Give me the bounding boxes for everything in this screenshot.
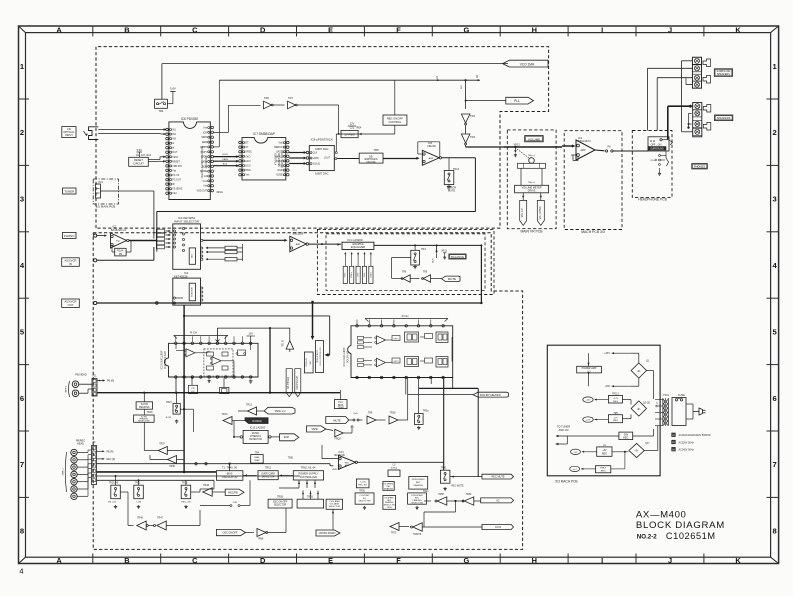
- svg-text:AUX/VCR: AUX/VCR: [65, 300, 77, 304]
- svg-text:E2: E2: [672, 442, 674, 444]
- svg-text:LRCI: LRCI: [245, 161, 251, 163]
- IC3 internal selector bar: [189, 248, 195, 264]
- svg-text:ON/OFF: ON/OFF: [366, 161, 376, 164]
- svg-text:AND CD: AND CD: [559, 428, 569, 432]
- svg-text:TR22: TR22: [135, 483, 141, 485]
- svg-text:REG: REG: [602, 454, 607, 456]
- wire IC12 pins down verticals: [405, 379, 407, 395]
- main speaker terminal block: [693, 103, 702, 137]
- svg-text:TAPE 1: TAPE 1: [65, 385, 68, 393]
- svg-text:REG: REG: [623, 437, 628, 439]
- svg-text:TR9: TR9: [368, 412, 373, 415]
- OSC ON/OFF flag: [216, 529, 245, 535]
- svg-text:BIAS: BIAS: [254, 456, 260, 459]
- svg-text:+5V: +5V: [602, 450, 607, 452]
- svg-text:OFF↔ON: OFF↔ON: [651, 143, 662, 146]
- svg-text:F: F: [396, 556, 401, 565]
- K1 PB EQ vertical flag: [286, 369, 292, 397]
- wire EMPH rail: [219, 79, 480, 81]
- svg-text:PLAYBACK AMP: PLAYBACK AMP: [164, 351, 167, 370]
- svg-text:TR51: TR51: [265, 467, 272, 470]
- R CH bracket over IC12: [365, 318, 448, 320]
- svg-text:RESET: RESET: [134, 158, 143, 162]
- HI FREQ dark flag: [245, 418, 268, 424]
- svg-text:B: B: [124, 25, 129, 34]
- svg-text:MUTE: MUTE: [448, 277, 456, 281]
- svg-text:-12V: -12V: [586, 420, 591, 422]
- wire TR3 down to volume rail: [465, 145, 467, 147]
- PLL flag: [506, 97, 534, 104]
- svg-text:TRAP: TRAP: [254, 459, 260, 462]
- svg-text:16BIT DAC: 16BIT DAC: [315, 172, 329, 176]
- svg-text:F: F: [396, 25, 401, 34]
- IC12 CXA1118BP dolby rec amp box: [351, 326, 453, 378]
- wire TR58 down loop: [424, 500, 431, 502]
- svg-text:QH1: QH1: [353, 413, 358, 415]
- wire bias osc to over curr: [243, 475, 257, 477]
- svg-text:PB (R): PB (R): [107, 451, 114, 453]
- svg-text:VS SENS: VS SENS: [172, 189, 182, 191]
- IC6 left pins: [166, 128, 169, 131]
- IC2 KET4052B tape monitor selector box: [173, 278, 201, 305]
- svg-text:P21: P21: [99, 181, 104, 184]
- svg-text:TR6: TR6: [402, 271, 407, 274]
- tape2 head connector circles: [71, 449, 77, 455]
- svg-text:NOR-SPEED: NOR-SPEED: [412, 479, 425, 481]
- wire speaker bottom return: [682, 131, 693, 133]
- svg-text:-Φ-: -Φ-: [637, 407, 641, 411]
- svg-text:PLL: PLL: [514, 99, 520, 103]
- SURROUND SPEAKERS label: [714, 69, 732, 77]
- svg-text:IC1 LA9200: IC1 LA9200: [347, 238, 363, 242]
- svg-text:TR33: TR33: [182, 483, 188, 485]
- STK output wire with P8 connectors: [595, 149, 605, 152]
- reset circuit box: [129, 157, 149, 166]
- svg-text:RI FREQ: RI FREQ: [252, 421, 262, 423]
- svg-text:Q3-Q5: Q3-Q5: [657, 402, 659, 408]
- svg-text:4: 4: [19, 567, 23, 576]
- IC8 left pins: [306, 151, 309, 154]
- svg-text:TR18: TR18: [147, 411, 154, 414]
- svg-text:COPY: COPY: [200, 152, 207, 154]
- svg-text:TR4: TR4: [421, 248, 426, 251]
- svg-text:AC110/120/220/240V 50/60Hz: AC110/120/220/240V 50/60Hz: [679, 434, 712, 437]
- IC10 internal wires: [195, 352, 208, 354]
- svg-text:CAL: CAL: [203, 180, 208, 183]
- svg-text:LRCO: LRCO: [276, 152, 283, 154]
- svg-text:4kHz: 4kHz: [364, 273, 366, 278]
- NOR-SPEED REC PEAKING box: [409, 477, 428, 490]
- svg-text:REC: REC: [416, 482, 421, 484]
- svg-text:-Φ-: -Φ-: [637, 369, 641, 373]
- svg-text:I: I: [601, 556, 603, 565]
- svg-text:BLOCK DIAGRAM: BLOCK DIAGRAM: [636, 520, 725, 531]
- svg-text:TUNER: TUNER: [64, 190, 74, 194]
- svg-text:LRCK: LRCK: [201, 157, 208, 159]
- CrO2 flag: [482, 524, 514, 529]
- svg-text:E: E: [328, 25, 333, 34]
- dashed outline lower main PCB: [93, 233, 522, 550]
- IC12 top pin row: [356, 325, 359, 328]
- svg-text:TR112: TR112: [612, 394, 619, 396]
- SURROUND black band: [648, 147, 666, 151]
- svg-text:K1 PB EQ: K1 PB EQ: [286, 377, 290, 389]
- long wire back to input selector: [157, 211, 476, 213]
- svg-text:BCK: BCK: [202, 166, 207, 168]
- svg-text:C+D4 BIAS: C+D4 BIAS: [329, 500, 340, 503]
- svg-text:2: 2: [20, 128, 24, 137]
- svg-text:TR12: TR12: [246, 404, 253, 407]
- svg-text:VCO 1MH: VCO 1MH: [520, 62, 535, 66]
- svg-text:REC -ON: REC -ON: [181, 502, 191, 504]
- svg-text:SELECTOR: SELECTOR: [274, 505, 287, 507]
- VOL DOWN flag vertical: [537, 200, 544, 225]
- wire rec line from IC13 right: [384, 461, 444, 463]
- wire IC4 out to GEQ: [308, 243, 341, 245]
- wire IC2 tap to aux line: [176, 297, 183, 299]
- svg-text:TR13: TR13: [453, 168, 460, 171]
- svg-text:3: 3: [20, 195, 24, 204]
- svg-text:+5V: +5V: [574, 452, 578, 454]
- svg-text:PC VS: PC VS: [172, 175, 179, 177]
- svg-text:IC1: IC1: [113, 225, 118, 229]
- wire tuner P21 to selector: [101, 190, 154, 192]
- IC12 internal upper filter blocks: [392, 336, 400, 341]
- wire from IC10 top to ALC rail: [217, 327, 290, 329]
- svg-text:TR46: TR46: [137, 517, 144, 520]
- wire into IC13 from left: [321, 445, 323, 459]
- IC3 resistor inputs from right: [225, 246, 237, 249]
- svg-text:DOLBY NR: DOLBY NR: [347, 351, 350, 363]
- bus IC7 to IC8 thick wires: [289, 152, 305, 154]
- dolby switch TR2a: [415, 414, 424, 425]
- svg-text:REC MUTE: REC MUTE: [491, 476, 504, 479]
- IC10 internal opamp B: [212, 357, 221, 365]
- wire cross down up: [332, 509, 334, 530]
- aux out node: [94, 301, 97, 304]
- rectifier diamond Q17: [629, 443, 644, 457]
- svg-text:A: A: [56, 25, 62, 34]
- IC10 CXA1118BP playback amp box: [169, 343, 259, 377]
- aux out long wire: [97, 302, 482, 304]
- svg-text:TR5N: TR5N: [387, 507, 393, 509]
- corner diagonals: [19, 26, 26, 33]
- svg-text:16kHz: 16kHz: [370, 272, 372, 278]
- rectifier diamond Q1: [631, 363, 646, 378]
- svg-text:CONTROL: CONTROL: [389, 120, 402, 124]
- op-amp IC1 BA15218 1/2 phono eq amp: [111, 233, 127, 248]
- optical connector: [89, 127, 99, 140]
- svg-text:EQUALIZER: EQUALIZER: [351, 246, 365, 249]
- wire IC5 output right and down: [442, 157, 476, 159]
- geq output wire: [374, 244, 482, 246]
- svg-text:TR2a: TR2a: [422, 410, 429, 413]
- 5V REG box: [341, 130, 358, 137]
- tape2 bus wires: [97, 463, 331, 465]
- 5.6V supply at TR4: [170, 91, 175, 93]
- svg-text:-Φ-: -Φ-: [635, 449, 639, 453]
- STK feedback: [577, 157, 579, 161]
- BALANCE label box: [449, 254, 466, 259]
- AC plug symbol: [693, 411, 699, 413]
- svg-text:AMP: AMP: [345, 464, 350, 467]
- svg-text:HEAD: HEAD: [77, 443, 84, 446]
- CROSS DOWN flag: [316, 530, 340, 536]
- svg-text:CROSS DOWN: CROSS DOWN: [319, 532, 336, 535]
- svg-text:TR6: TR6: [264, 96, 269, 100]
- svg-text:OPT5: OPT5: [393, 338, 399, 340]
- svg-text:IC8 μPD6376CK: IC8 μPD6376CK: [311, 137, 333, 141]
- svg-text:6: 6: [772, 394, 776, 403]
- svg-text:PB -ON: PB -ON: [108, 502, 116, 504]
- svg-text:TRAP: TRAP: [338, 406, 345, 409]
- IC10 bottom pin row: [175, 376, 178, 379]
- svg-text:VOLUME: VOLUME: [528, 137, 540, 141]
- VOLUME label box: [525, 136, 544, 142]
- wire over curr to psu controller: [280, 475, 294, 477]
- svg-text:NR218: NR218: [427, 144, 436, 148]
- svg-text:SPEAKERS: SPEAKERS: [717, 73, 730, 76]
- input connector stack into IC3: [156, 229, 164, 233]
- connector P21 dash-dot box 1/5 MAIN PCB: [93, 179, 118, 204]
- svg-text:VDD INH: VDD INH: [172, 166, 182, 168]
- -50V REG box: [619, 432, 633, 440]
- svg-text:E1: E1: [672, 435, 674, 437]
- REC/PB flag: [225, 489, 244, 495]
- TR5 -12V REG box: [608, 415, 622, 423]
- svg-text:TR95: TR95: [169, 466, 175, 468]
- headphone block relay box: [648, 137, 669, 151]
- svg-text:IR: IR: [172, 184, 175, 186]
- svg-text:IC4: IC4: [293, 228, 298, 232]
- POWER AMP box: [577, 366, 602, 373]
- buffer TR57: [158, 447, 167, 455]
- VCO 1MH flag: [503, 60, 549, 67]
- wire optical to IC6: [98, 129, 166, 131]
- wire reset to IC6: [148, 159, 160, 161]
- svg-text:-50V: -50V: [623, 434, 628, 436]
- DE-EMPHASIS ON/OFF box TR8: [359, 153, 383, 163]
- IC3 input pins: [173, 230, 175, 232]
- K3 SPEED REC PEAKING SELECT SW box: [383, 495, 396, 509]
- svg-text:TAPE 1/ 2: TAPE 1/ 2: [274, 410, 286, 413]
- wire bus verticals to bias osc: [213, 480, 215, 489]
- IC7 SM5843AP digital filter: [242, 138, 286, 180]
- svg-text:7: 7: [20, 460, 24, 469]
- motor circle: [529, 158, 535, 164]
- thick wire into ALC from right: [329, 316, 331, 355]
- svg-text:ERR: ERR: [202, 142, 207, 144]
- svg-text:6: 6: [20, 394, 24, 403]
- headphone ground: [659, 168, 661, 172]
- VOL UP flag vertical: [520, 200, 527, 225]
- svg-text:5.6V: 5.6V: [137, 148, 143, 152]
- thick wire to main speakers: [667, 106, 669, 140]
- volume main wire thick: [504, 146, 562, 148]
- IC3 main output wire to IC4: [203, 239, 286, 241]
- IC6 right pins: [211, 126, 214, 129]
- svg-text:Q17: Q17: [645, 443, 650, 445]
- svg-text:SELECTOR: SELECTOR: [329, 506, 341, 508]
- svg-text:12V: 12V: [350, 123, 355, 126]
- svg-text:C21, TR04: C21, TR04: [350, 127, 362, 130]
- playback head amp TR1B triangle up: [286, 341, 294, 350]
- svg-text:TAPE: TAPE: [311, 427, 318, 431]
- svg-text:TR16, 45: TR16, 45: [109, 483, 119, 485]
- IC2 pins: [201, 287, 203, 289]
- buffer TR66: [245, 532, 254, 534]
- svg-text:TR36(+47: TR36(+47: [306, 358, 308, 366]
- buffer TR52: [464, 497, 474, 505]
- svg-text:INPUT SELECTOR: INPUT SELECTOR: [174, 220, 199, 224]
- svg-text:FUSE: FUSE: [678, 394, 685, 397]
- svg-text:MUSIC: MUSIC: [252, 433, 260, 435]
- tape1 main wire to deck: [97, 392, 340, 394]
- MUTE flag mid chain: [326, 417, 349, 424]
- thick wire IC12 bottom to rec mute feed: [419, 387, 479, 389]
- SPEAKERS label: [715, 115, 733, 121]
- IC10 X mark at pin: [216, 340, 220, 344]
- svg-text:SPEAKERS: SPEAKERS: [717, 117, 731, 120]
- svg-text:OUT: OUT: [68, 303, 74, 307]
- svg-text:TR(a+-): TR(a+-): [528, 182, 536, 184]
- buffer TR12 and TAPE flag: [248, 407, 257, 415]
- svg-text:TR2: TR2: [470, 114, 475, 118]
- surround speaker plugs: [703, 59, 711, 67]
- svg-text:TR72: TR72: [391, 533, 397, 535]
- svg-text:TRB.5: TRB.5: [600, 468, 607, 470]
- svg-text:DCN: DCN: [245, 166, 250, 168]
- svg-text:TR13: TR13: [222, 413, 229, 416]
- svg-text:PB (R): PB (R): [107, 380, 114, 383]
- IC7 left pins: [239, 141, 242, 144]
- svg-text:REG: REG: [601, 471, 606, 473]
- svg-text:LEVEL CONTROLLER: LEVEL CONTROLLER: [320, 347, 322, 366]
- bus IC6 to IC7 three thick wires: [214, 156, 238, 158]
- IC10 bottom components PB EQ: [191, 378, 193, 385]
- wire rail to PLL branch: [465, 80, 467, 89]
- svg-text:T501: T501: [663, 394, 669, 397]
- svg-text:VOL DOWN: VOL DOWN: [539, 206, 542, 219]
- TR36 label box auto level: [316, 341, 324, 373]
- svg-text:-12V: -12V: [613, 417, 618, 419]
- svg-text:AC240V 50Hz: AC240V 50Hz: [679, 449, 695, 452]
- svg-text:R CH: R CH: [190, 331, 197, 335]
- svg-text:2: 2: [772, 128, 776, 137]
- PB R arrow label: [97, 450, 104, 452]
- buffer TR3 down: [465, 125, 467, 134]
- IC6 PD0052 digital audio interface receiver: [169, 122, 210, 200]
- svg-text:INPUT: INPUT: [65, 133, 73, 137]
- svg-text:DATA: DATA: [222, 158, 228, 161]
- graphic equalizer IC1 LA9200 box: [342, 242, 374, 249]
- aux input node: [94, 259, 97, 262]
- phono input node: [94, 234, 97, 237]
- svg-text:12V: 12V: [248, 332, 253, 336]
- svg-text:MONITOR: MONITOR: [191, 287, 193, 297]
- svg-text:C+D4: C+D4: [360, 481, 366, 483]
- svg-text:BUS: BUS: [433, 258, 435, 263]
- svg-text:CIRCUIT: CIRCUIT: [133, 162, 144, 166]
- REG ON/OFF CONTROL box: [383, 115, 407, 125]
- IC12 internal verticals: [386, 339, 392, 341]
- op-amp IC4 BA15218: [290, 236, 306, 252]
- svg-text:H: H: [532, 556, 537, 565]
- svg-text:VOLTAGE: VOLTAGE: [330, 502, 340, 505]
- C+D4 REC EQ box: [356, 479, 369, 488]
- switch TR13 error mute: [448, 158, 450, 171]
- wire geq out down to deck section: [480, 245, 482, 303]
- wire IC2 out down to deck: [184, 315, 330, 317]
- rectifier diamond Q3-Q5: [631, 401, 646, 416]
- wire TR33 to controller: [191, 491, 200, 493]
- svg-text:3: 3: [772, 195, 776, 204]
- wire TR6 TR7 chain: [228, 104, 260, 106]
- surround speaker terminal block: [692, 57, 701, 88]
- headphone jack contacts: [669, 140, 673, 145]
- svg-text:TR15: TR15: [166, 401, 173, 404]
- svg-text:TR61: TR61: [288, 458, 294, 460]
- svg-text:CONTROLLER: CONTROLLER: [300, 476, 317, 479]
- pot wiper dash link to motor: [517, 149, 530, 159]
- svg-text:TR56: TR56: [277, 496, 284, 499]
- R CH bracket over IC10: [174, 334, 228, 336]
- svg-text:Vdd: Vdd: [279, 143, 284, 145]
- svg-text:K: K: [735, 556, 741, 565]
- IC7 right pins: [287, 141, 290, 144]
- buffer TR13 left: [223, 417, 232, 425]
- svg-text:J: J: [668, 556, 672, 565]
- wire REG control to 5V REG: [394, 125, 396, 134]
- svg-text:TR47: TR47: [157, 517, 164, 520]
- tape1 head connector circles: [72, 381, 79, 388]
- svg-text:SOSE: SOSE: [276, 175, 283, 177]
- svg-text:(OSC): (OSC): [391, 467, 397, 469]
- svg-text:TR5: TR5: [423, 271, 428, 274]
- svg-text:DETECTOR: DETECTOR: [262, 476, 275, 478]
- wire IC13 out right: [358, 461, 385, 463]
- voltage legend: [672, 433, 676, 437]
- MUTE flag: [442, 276, 461, 281]
- svg-text:DRSC: DRSC: [245, 152, 252, 154]
- K2 PB PEAKING box: [136, 402, 152, 409]
- svg-text:DGL: DGL: [278, 166, 283, 168]
- dashed box MACH PCB 3/3: [564, 131, 622, 230]
- TAPE flag mid: [307, 426, 326, 432]
- svg-text:VOL UP: VOL UP: [521, 208, 524, 217]
- svg-text:OSC ON/OFF: OSC ON/OFF: [223, 532, 238, 535]
- AUX/VCR IN label box: [62, 258, 80, 267]
- svg-text:63Hz: 63Hz: [345, 273, 347, 278]
- CD optical input label box: [62, 127, 76, 138]
- buffer TRQ2: [326, 429, 333, 431]
- dashed outline upper main PCB 2/5: [96, 47, 549, 229]
- IC12 small pins mid: [358, 336, 364, 339]
- PHONES label box: [692, 164, 708, 169]
- balance pot VR11: [436, 244, 438, 246]
- svg-text:D: D: [260, 25, 266, 34]
- svg-text:BERCO: BERCO: [274, 147, 282, 149]
- IC10 internal small boxes: [207, 352, 214, 356]
- mute buffer TR5: [410, 278, 419, 280]
- svg-text:PEAKING: PEAKING: [139, 406, 150, 409]
- IC10 12V entry resistor: [238, 350, 246, 356]
- LOW-SPEED REC PEAKING SELECT SW box: [408, 493, 427, 504]
- power amp IC1 STK4142 II triangle: [576, 140, 595, 160]
- svg-text:VR12: VR12: [514, 144, 521, 147]
- speaker jumper wire: [689, 112, 692, 114]
- ALC controller box TR36-47 auto level controller: [304, 352, 313, 373]
